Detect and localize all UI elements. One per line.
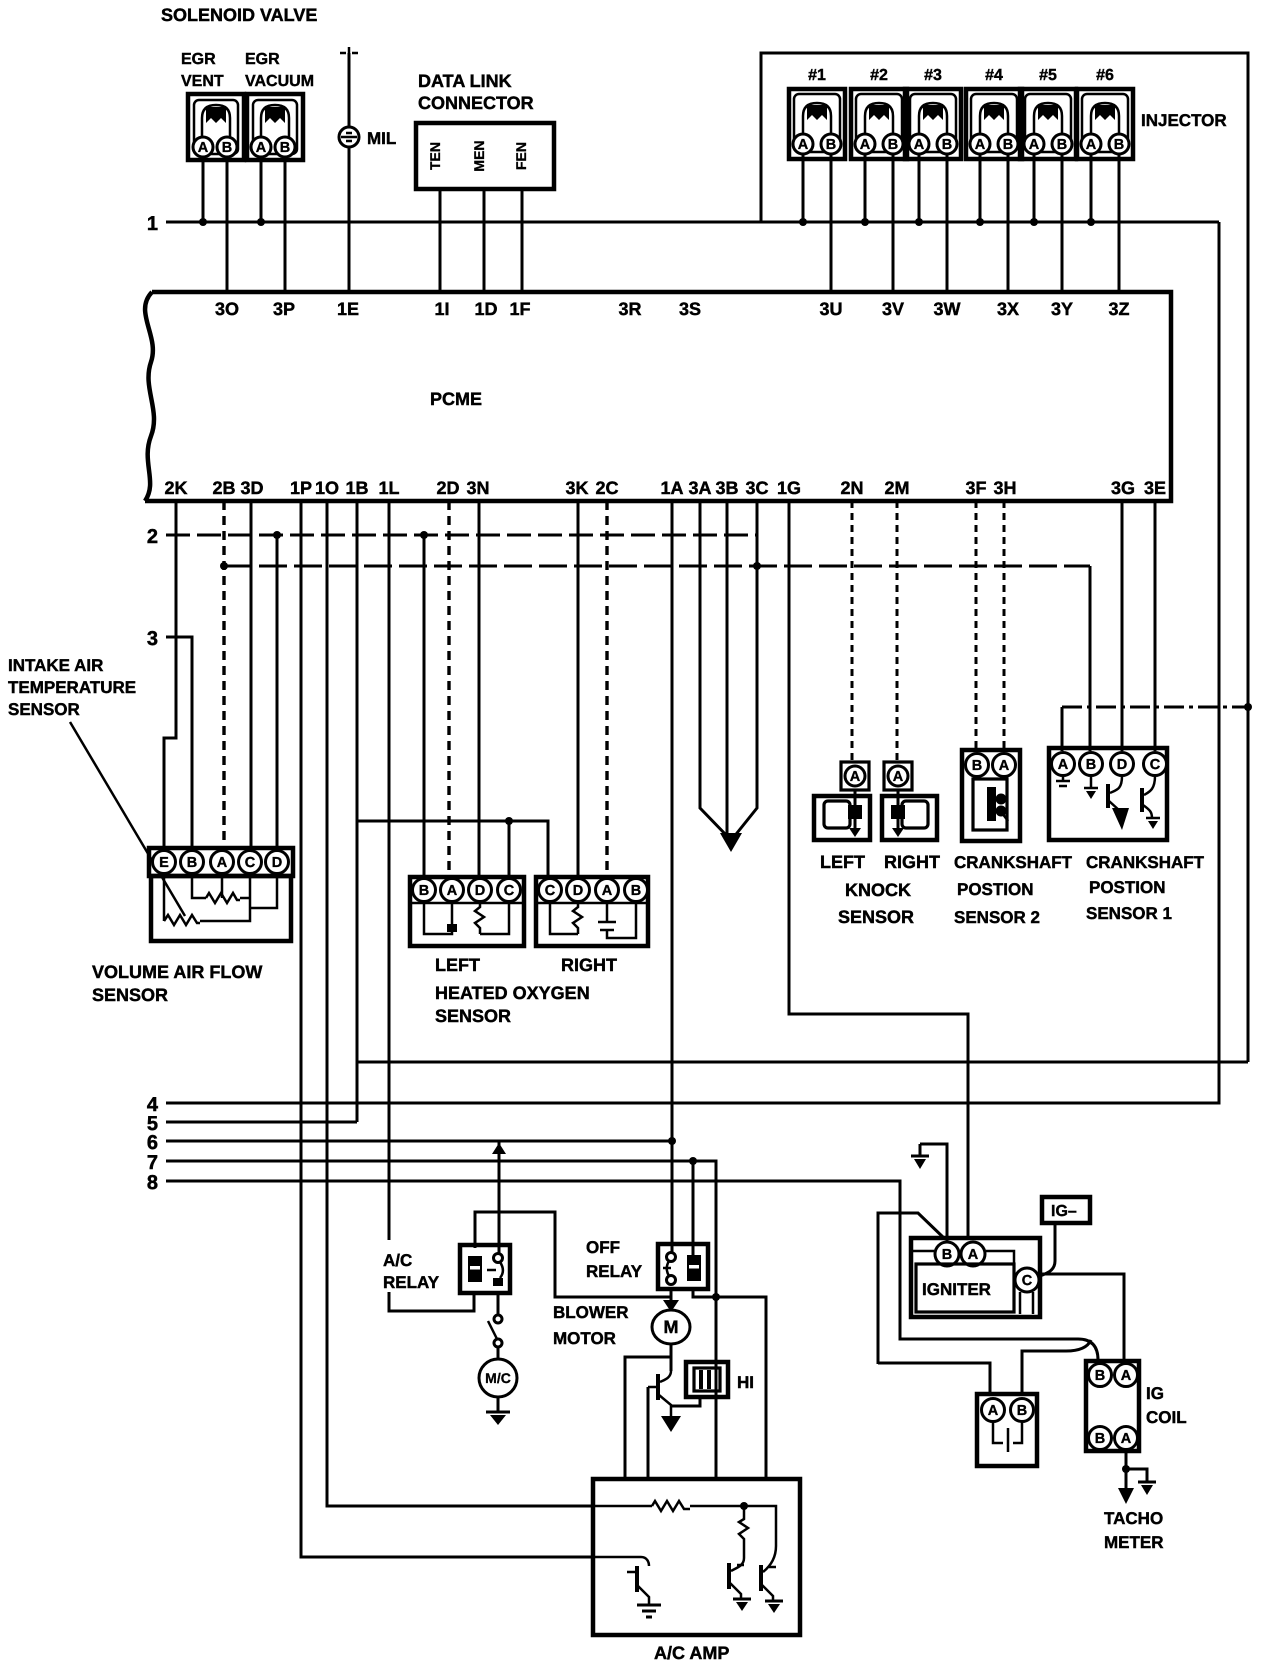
svg-text:INJECTOR: INJECTOR [1141,111,1227,130]
wire H1 shield bus lower [357,1061,1248,1064]
wire TEN to PCME 1I [439,189,442,292]
svg-text:B: B [1086,757,1096,773]
pin A igniter [961,1242,985,1266]
svg-text:E: E [159,855,169,871]
svg-text:2B: 2B [212,478,235,498]
motor blower M [652,1310,690,1344]
sensor VOLUME AIR FLOW connector row [149,848,293,876]
svg-text:A: A [968,1247,979,1263]
pin B injector #4 [998,134,1018,154]
igniter inner box [916,1264,1014,1312]
svg-text:A: A [893,769,904,785]
wire OFF relay switch to motor [670,1289,673,1310]
svg-text:B: B [1095,1431,1105,1447]
transistor CKP1 hall output [1108,776,1129,830]
svg-text:B: B [419,883,429,899]
power stub above MIL [340,47,358,53]
junction wire7 riser on coil out [712,1293,720,1301]
resistor VAF potentiometer [206,893,240,903]
pin B CKP1 [1080,753,1103,776]
wire 2M to right knock sensor [896,501,899,763]
svg-text:POSTION: POSTION [1089,878,1166,897]
wire A/C relay switch to M/C [497,1293,500,1315]
op PCME box [145,292,1171,501]
svg-text:#6: #6 [1096,67,1114,84]
pin B injector #2 [883,134,903,154]
svg-text:COIL: COIL [1146,1408,1187,1427]
wire emitter to HI connector [671,1397,700,1406]
svg-text:3S: 3S [679,299,701,319]
igniter internal links [913,1251,1033,1314]
svg-text:DATA LINK: DATA LINK [418,71,512,91]
svg-text:A/C: A/C [383,1251,412,1270]
wire FEN to PCME 1F [521,189,524,292]
svg-text:7: 7 [147,1152,158,1174]
ground igniter B feed [911,1144,929,1169]
svg-text:B: B [826,137,836,153]
svg-text:IGNITER: IGNITER [922,1280,991,1299]
sensor left knock body [814,790,870,840]
sensor VOLUME AIR FLOW body [151,876,291,941]
pin B injector #3 [937,134,957,154]
svg-text:B: B [631,883,641,899]
svg-text:MEN: MEN [471,140,487,171]
svg-text:3X: 3X [997,299,1019,319]
junction EGR VACUUM A on wire 1 [257,218,265,226]
svg-text:#4: #4 [985,67,1003,84]
wire injector #4 A to wire 1 [979,154,982,222]
svg-text:2: 2 [147,526,158,548]
junction wire 6 on 1A wire [668,1137,676,1145]
pin A EGR VENT [193,137,213,157]
wire injector #3 B to PCME [946,154,949,292]
svg-text:CONNECTOR: CONNECTOR [418,93,534,113]
arrow tap wire 6 [492,1143,506,1154]
injector #2 connector [851,89,907,159]
wire 1B to wire 5 [356,501,359,1122]
svg-text:A: A [999,758,1010,774]
connector distributor pickup box [977,1394,1037,1466]
connector DATA LINK [416,123,554,189]
relay OFF switch [663,1253,676,1285]
svg-text:VACUUM: VACUUM [245,73,314,90]
junction injector #6 A on wire 1 [1087,218,1095,226]
wire HOS C bus [357,821,548,877]
wire dashdot to CKP1 A [1062,706,1248,709]
junction 2B shield bus [220,562,228,570]
relay OFF box [658,1244,708,1289]
wire injector #1 A to wire 1 [802,154,805,222]
pin A EGR VACUUM [251,137,271,157]
wire shield bus y566 [224,565,1090,568]
wire EGR VACUUM A to wire 1 [260,157,263,222]
sensor CRANKSHAFT POSITION SENSOR 2 [962,750,1020,841]
svg-text:3: 3 [147,628,158,650]
junction divider [740,1502,748,1510]
svg-text:1A: 1A [660,478,683,498]
svg-text:MIL: MIL [367,129,396,148]
wire 1G to igniter A [789,501,968,1240]
svg-text:A: A [975,137,986,153]
wire 2 branch to VAF D [276,535,279,848]
pin A VAF [211,851,234,874]
junction HOS C bus [505,817,513,825]
wire transistor base to AMP [647,1387,650,1479]
svg-text:C: C [1150,757,1161,773]
svg-text:2M: 2M [884,478,909,498]
svg-text:8: 8 [147,1172,158,1194]
svg-text:3G: 3G [1111,478,1135,498]
svg-text:IG: IG [1146,1384,1164,1403]
pin B EGR VACUUM [275,137,295,157]
injector #3 connector [905,89,961,159]
svg-text:A: A [914,137,925,153]
svg-text:C: C [545,883,556,899]
svg-text:3Z: 3Z [1108,299,1129,319]
wire IG- to igniter C [1040,1223,1055,1276]
svg-text:B: B [1003,137,1013,153]
sensor CRANKSHAFT POSITION SENSOR 1 [1049,748,1167,840]
pin A IG coil bottom [1115,1427,1138,1450]
sensor RIGHT heated oxygen box [536,877,648,946]
injector #4 connector [966,89,1022,159]
wire injector #2 B to PCME [892,154,895,292]
motor M/C [479,1359,517,1397]
svg-text:FEN: FEN [513,142,529,170]
svg-text:C: C [245,855,256,871]
svg-text:1E: 1E [337,299,359,319]
svg-text:3Y: 3Y [1051,299,1073,319]
pin A distributor [982,1399,1005,1422]
svg-text:A: A [602,883,613,899]
solenoid valve EGR VACUUM connector [247,94,303,160]
wire motor to transistor [625,1344,671,1479]
pin D CKP1 [1111,753,1134,776]
pin A IG coil top [1115,1364,1138,1387]
wire 3 [166,637,192,848]
svg-text:C: C [504,883,515,899]
arrow to tachometer [1118,1488,1134,1504]
svg-text:A: A [447,883,458,899]
sensor right knock body [882,790,937,840]
pin B right HOS [625,879,648,902]
svg-text:1D: 1D [474,299,497,319]
svg-text:SENSOR 1: SENSOR 1 [1086,904,1172,923]
svg-text:A: A [798,137,809,153]
wire 1L to A/C relay coil [389,501,474,1311]
svg-text:IG–: IG– [1051,1203,1077,1220]
svg-text:SENSOR: SENSOR [435,1006,511,1026]
svg-text:3W: 3W [934,299,961,319]
svg-text:3H: 3H [993,478,1016,498]
right HOS sensor cell [598,903,636,938]
pin A CKP2 [993,754,1016,777]
wire distributor B to IG coil B [1022,1340,1091,1396]
svg-text:EGR: EGR [245,51,280,68]
wire 8 to distributor [166,1181,1098,1363]
wire EGR VENT B to PCME 3O [226,157,229,292]
solenoid valve EGR VENT connector [188,94,244,160]
pin C igniter [1015,1268,1039,1292]
svg-text:EGR: EGR [181,51,216,68]
left HOS sensor cell wires [424,903,452,934]
wire 2 bus [166,534,757,537]
svg-text:LEFT: LEFT [435,955,480,975]
wire A/C relay coil feed jog [475,1212,671,1297]
svg-text:3A: 3A [688,478,711,498]
junction injector #4 A on wire 1 [976,218,984,226]
svg-text:POSTION: POSTION [957,880,1034,899]
pin A injector #6 [1081,134,1101,154]
wire 1A to OFF relay switch [671,501,674,1256]
svg-text:MOTOR: MOTOR [553,1329,616,1348]
wire 7 [166,1161,716,1479]
wire 1 bus [166,221,1219,224]
svg-text:RELAY: RELAY [383,1273,440,1292]
junction dashdot on injector loop [1244,703,1252,711]
module IGNITER box [911,1238,1040,1317]
wire branch to left HOS C [508,821,511,877]
svg-text:HEATED OXYGEN: HEATED OXYGEN [435,983,590,1003]
svg-text:3K: 3K [565,478,588,498]
svg-text:#2: #2 [870,67,888,84]
junction tacho ground branch [1122,1465,1130,1473]
resistor A/C AMP [652,1501,690,1511]
relay OFF coil [687,1255,701,1281]
svg-text:A: A [1058,757,1069,773]
transistor A/C AMP Q3 [761,1546,783,1613]
A/C AMP internal feed [593,1506,776,1546]
pin B IG coil bottom [1089,1427,1112,1450]
svg-text:VOLUME AIR FLOW: VOLUME AIR FLOW [92,962,262,982]
svg-text:#1: #1 [808,67,826,84]
svg-text:3O: 3O [215,299,239,319]
injector #5 connector [1020,89,1076,159]
wire 7 tap to OFF relay coil [692,1161,695,1256]
wire injector #6 A to wire 1 [1090,154,1093,222]
module A/C AMP box [593,1479,800,1635]
pin A left knock sensor [841,762,869,790]
wire 2D shield to left HOS A [447,501,450,877]
svg-text:A: A [860,137,871,153]
svg-text:SENSOR: SENSOR [92,985,168,1005]
svg-text:B: B [1095,1368,1105,1384]
sensor LEFT heated oxygen box [410,877,524,946]
transistor A/C AMP Q2 [729,1558,751,1611]
pin B injector #5 [1052,134,1072,154]
ground CKP1 pin A [1056,776,1070,786]
junction injector #3 A on wire 1 [915,218,923,226]
svg-text:TEMPERATURE: TEMPERATURE [8,678,136,697]
svg-text:2N: 2N [840,478,863,498]
svg-text:BLOWER: BLOWER [553,1303,629,1322]
junction wire2 VAF D [273,531,281,539]
pin A CKP1 [1052,753,1075,776]
wire MEN to PCME 1D [483,189,486,292]
lamp MIL [339,127,359,147]
svg-text:3V: 3V [882,299,904,319]
svg-text:#5: #5 [1039,67,1057,84]
svg-text:TEN: TEN [427,142,443,170]
svg-text:1O: 1O [315,478,339,498]
svg-text:B: B [1017,1403,1027,1419]
svg-text:B: B [888,137,898,153]
svg-text:A: A [217,855,228,871]
wire 5 [166,1121,357,1124]
wire 6 tap to A/C relay switch [498,1141,501,1256]
pin C right HOS [539,879,562,902]
svg-text:A: A [1121,1431,1132,1447]
svg-text:2D: 2D [436,478,459,498]
wire injector #2 A to wire 1 [864,154,867,222]
wire injector #4 B to PCME [1007,154,1010,292]
svg-text:B: B [942,137,952,153]
wire OFF relay coil out [693,1289,766,1479]
wire ground branch [1126,1469,1147,1482]
connector IG- box [1042,1197,1090,1223]
svg-text:VENT: VENT [181,73,224,90]
wire injector #6 B to PCME [1118,154,1121,292]
svg-text:CRANKSHAFT: CRANKSHAFT [954,853,1073,872]
transistor CKP1 hall output 2 [1142,776,1160,829]
pin C VAF [239,851,262,874]
relay A/C box [460,1245,510,1293]
svg-text:A: A [1029,137,1040,153]
wire injector #5 A to wire 1 [1033,154,1036,222]
svg-text:METER: METER [1104,1533,1164,1552]
wire MIL to PCME 1E [348,53,351,292]
pin B igniter [935,1242,959,1266]
svg-text:SENSOR 2: SENSOR 2 [954,908,1040,927]
wire 1O to A/C AMP [327,501,593,1506]
svg-text:3D: 3D [240,478,263,498]
svg-text:RIGHT: RIGHT [884,852,940,872]
svg-text:M: M [664,1317,679,1337]
switch blower control [488,1315,502,1347]
svg-text:#3: #3 [924,67,942,84]
svg-text:A: A [1086,137,1097,153]
svg-text:1B: 1B [345,478,368,498]
pin A injector #4 [970,134,990,154]
svg-text:B: B [972,758,982,774]
coil IG COIL box [1086,1361,1139,1451]
svg-text:3N: 3N [466,478,489,498]
wire 3B center [726,501,729,833]
junction shield bus on 3C [753,562,761,570]
svg-text:3U: 3U [819,299,842,319]
svg-text:3B: 3B [715,478,738,498]
wire 3A shield drain [700,501,729,838]
wire switch to M/C motor [497,1347,500,1359]
svg-text:TACHO: TACHO [1104,1509,1163,1528]
wire injector #3 A to wire 1 [918,154,921,222]
svg-text:M/C: M/C [485,1370,511,1386]
svg-text:C: C [1022,1273,1033,1289]
pin A right knock sensor [884,762,912,790]
pin A injector #1 [793,134,813,154]
svg-text:A: A [256,140,267,156]
junction wire2 left HOS B [420,531,428,539]
svg-text:3R: 3R [618,299,641,319]
VAF thermistor wires [164,876,277,921]
injector #6 connector [1077,89,1133,159]
pin B injector #1 [821,134,841,154]
ground M/C [486,1412,510,1425]
wire 6 [166,1140,672,1143]
wire injector supply loop [761,53,1248,1062]
svg-text:D: D [573,883,583,899]
wire CKP1 A drop [1061,707,1064,751]
svg-text:B: B [222,140,232,156]
pin D VAF [266,851,289,874]
injector #1 connector [789,89,845,159]
pin B left HOS [413,879,436,902]
wire M/C to ground [497,1397,500,1412]
pin B CKP2 [966,754,989,777]
wire 3C shield drain [733,501,757,838]
wire 1P to A/C AMP [301,501,593,1557]
wire igniter C to IG coil [1039,1274,1124,1362]
svg-text:A/C AMP: A/C AMP [654,1643,729,1663]
svg-text:A: A [850,769,861,785]
junction EGR VENT A on wire 1 [199,218,207,226]
pin B injector #6 [1109,134,1129,154]
svg-text:RELAY: RELAY [586,1262,643,1281]
svg-text:2K: 2K [164,478,187,498]
svg-text:1I: 1I [434,299,449,319]
svg-text:D: D [475,883,485,899]
pin C left HOS [498,879,521,902]
pin A left HOS [441,879,464,902]
resistor left HOS heater [475,903,509,934]
leader line intake air temp [70,722,185,916]
pin A right HOS [596,879,619,902]
wire 3E to CKP1 C [1154,501,1157,751]
svg-text:D: D [1117,757,1127,773]
wire 2 branch to left HOS B [423,535,426,877]
resistor A/C AMP vertical [739,1506,748,1558]
svg-text:D: D [272,855,282,871]
svg-text:KNOCK: KNOCK [845,880,911,900]
svg-text:1: 1 [147,213,158,235]
pin C CKP1 [1144,753,1167,776]
svg-text:A: A [198,140,209,156]
wire ground jog to igniter B [920,1144,947,1244]
wire EGR VACUUM B to PCME 3P [284,157,287,292]
svg-text:B: B [1114,137,1124,153]
svg-text:2C: 2C [595,478,618,498]
svg-text:3E: 3E [1144,478,1166,498]
wire shield bus to CKP1 B [1089,566,1092,751]
svg-text:3P: 3P [273,299,295,319]
wire 3H to CKP2 A [1003,501,1006,751]
junction wire 7 OFF relay coil [689,1157,697,1165]
svg-text:A: A [988,1403,999,1419]
pin A injector #2 [855,134,875,154]
wire distributor A drop [878,1363,990,1396]
svg-text:1G: 1G [777,478,801,498]
wire 3G to CKP1 D [1121,501,1124,751]
svg-text:SENSOR: SENSOR [8,700,80,719]
VAF potentiometer wires [192,876,250,898]
svg-text:B: B [187,855,197,871]
pin B distributor [1011,1399,1034,1422]
wire 4 with riser to wire 1 [166,222,1219,1103]
transistor blower HI driver [648,1371,671,1416]
pin A injector #3 [909,134,929,154]
wire 3F to CKP2 B [975,501,978,751]
svg-text:PCME: PCME [430,389,482,409]
